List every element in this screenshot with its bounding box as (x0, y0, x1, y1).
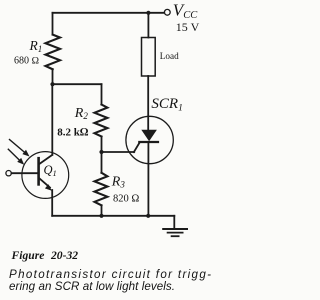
svg-text:Load: Load (160, 51, 179, 61)
wire load bottom to SCR (147, 76, 149, 130)
terminal Vcc circle (164, 9, 170, 15)
resistor R1 (46, 35, 61, 70)
Q1 collector diagonal (39, 155, 52, 164)
wire emitter down (51, 190, 53, 216)
wire SCR cathode down (147, 142, 149, 216)
ground (163, 228, 187, 230)
svg-text:ering an SCR at low light leve: ering an SCR at low light levels. (9, 280, 175, 293)
junction dot R1 bottom (50, 82, 54, 86)
load box (142, 38, 156, 77)
wire ground stub (173, 216, 175, 229)
wire R2 top (101, 84, 103, 104)
junction dot SCR cathode (146, 214, 150, 218)
phototransistor Q1 circle (22, 152, 69, 199)
wire load top (147, 13, 149, 38)
svg-text:8.2 kΩ: 8.2 kΩ (57, 127, 89, 139)
wire R3 top (101, 152, 103, 173)
wire R1 branch top (52, 13, 54, 35)
svg-text:820 Ω: 820 Ω (113, 194, 139, 205)
light arrow 1 shaft (10, 140, 26, 153)
terminal base circle (6, 171, 11, 176)
wire R2 bottom (101, 137, 103, 153)
wire collector vertical (51, 84, 53, 155)
svg-text:15 V: 15 V (176, 20, 200, 34)
Q1 emitter diagonal (39, 178, 50, 187)
wire horizontal to R2 (53, 83, 102, 85)
junction dot R2 bottom (99, 150, 103, 154)
junction dot R3 bottom (99, 214, 103, 218)
SCR1 triangle (141, 130, 157, 141)
wire R1 bottom (52, 69, 54, 84)
resistor R3 (95, 173, 108, 206)
Q1 emitter arrowhead (45, 184, 52, 191)
resistor R2 (95, 105, 108, 137)
light arrow 2 shaft (8, 149, 19, 160)
SCR1 circle (126, 116, 173, 163)
wire top rail (53, 12, 165, 14)
Q1 base lead (11, 172, 37, 174)
wire R3 bottom (101, 205, 103, 216)
SCR1 cathode bar (139, 141, 158, 143)
wire bottom rail (52, 215, 174, 217)
light arrow 1 head (22, 150, 29, 157)
SCR1 gate lead (134, 143, 140, 153)
svg-text:680 Ω: 680 Ω (14, 56, 40, 67)
wire gate horizontal (102, 151, 135, 153)
Q1 base bar (37, 158, 40, 184)
junction dot top (146, 11, 150, 15)
light arrow 2 head (17, 158, 24, 165)
